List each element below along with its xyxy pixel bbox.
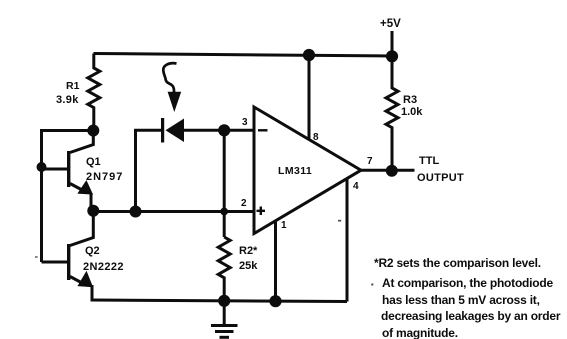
- wire Q2 base: [42, 261, 68, 264]
- svg-text:1: 1: [281, 220, 287, 231]
- wire top rail +5V: [94, 54, 393, 57]
- node D (photodiode anode branch): [130, 206, 142, 218]
- wire bottom rail: [92, 299, 347, 302]
- op-amp U1 LM311: [254, 107, 361, 234]
- resistor R2: [218, 237, 230, 301]
- wire noninverting input (pin 2): [93, 210, 253, 213]
- node J (output / R3 bottom): [386, 165, 398, 177]
- stray scan dot before note line 2: [371, 283, 373, 285]
- pin 8 label: [313, 132, 319, 143]
- R2 value label: [239, 245, 258, 272]
- stray scan mark near pin 4: [338, 220, 341, 222]
- wire photodiode left leg: [136, 130, 162, 211]
- note text: [374, 256, 561, 339]
- node E (pin3 / R2 junction): [218, 124, 230, 136]
- svg-text:TTL: TTL: [419, 155, 439, 167]
- svg-text:*R2 sets the comparison level.: *R2 sets the comparison level.: [374, 256, 541, 270]
- node K (+5V / R3 top): [386, 50, 398, 62]
- svg-text:3: 3: [242, 117, 248, 128]
- wire photodiode to pin 3: [184, 129, 254, 132]
- R3 value label: [401, 94, 423, 118]
- pin 8 wire: [308, 55, 311, 140]
- pin 4 label: [353, 181, 359, 192]
- node F (small junction R2 / pin2 wire): [220, 208, 228, 216]
- pin 1 wire: [274, 221, 277, 301]
- pin 3 label: [242, 117, 248, 128]
- pin 7 output wire: [361, 169, 415, 172]
- svg-text:4: 4: [353, 181, 359, 192]
- svg-text:R1: R1: [66, 80, 80, 92]
- svg-text:R2*: R2*: [239, 245, 258, 257]
- transistor Q2: [67, 211, 93, 300]
- node G (R2 bottom / ground): [218, 295, 230, 307]
- svg-text:3.9k: 3.9k: [56, 94, 79, 106]
- svg-text:of magnitude.: of magnitude.: [382, 326, 458, 339]
- svg-text:7: 7: [367, 156, 373, 167]
- svg-text:Q1: Q1: [86, 156, 101, 168]
- photodiode D1: [161, 118, 184, 143]
- R1 value label: [56, 80, 80, 106]
- svg-text:Q2: Q2: [85, 245, 100, 257]
- +5V label: [380, 18, 401, 30]
- node A (R1 bottom junction): [87, 125, 99, 137]
- ground: [211, 300, 238, 337]
- svg-text:At comparison, the photodiode: At comparison, the photodiode: [382, 276, 553, 290]
- transistor Q1: [67, 131, 93, 209]
- svg-text:OUTPUT: OUTPUT: [417, 172, 464, 184]
- svg-text:R3: R3: [403, 94, 417, 106]
- svg-text:has less than 5 mV across it,: has less than 5 mV across it,: [382, 293, 540, 307]
- pin 7 label: [367, 156, 373, 167]
- svg-text:2: 2: [241, 198, 247, 209]
- TTL OUTPUT label: [417, 155, 464, 184]
- stray scan mark near Q2 base: [35, 256, 38, 258]
- node I (pin 1 / bottom rail): [269, 295, 281, 307]
- wire left branch from node A: [42, 131, 94, 263]
- pin 2 label: [241, 198, 247, 209]
- node B (Q1 base junction): [37, 162, 47, 172]
- node C (Q1 emitter / Q2 collector / pin2 wire): [87, 205, 99, 217]
- pin 4 wire: [346, 178, 349, 301]
- resistor R3: [386, 56, 398, 170]
- svg-text:2N2222: 2N2222: [83, 261, 124, 273]
- svg-text:25k: 25k: [239, 260, 258, 272]
- svg-text:+5V: +5V: [380, 18, 401, 30]
- wire Q1 base: [42, 168, 68, 171]
- Q1 label: [86, 156, 123, 183]
- wire R2 top leg: [223, 130, 226, 237]
- svg-text:decreasing leakages by an orde: decreasing leakages by an order: [381, 309, 561, 323]
- svg-text:LM311: LM311: [278, 165, 312, 177]
- resistor R1: [88, 54, 100, 131]
- node H (pin 8 / top rail): [303, 49, 315, 61]
- wire +5V stub: [391, 31, 394, 56]
- pin 1 label: [281, 220, 287, 231]
- Q2 label: [83, 245, 124, 273]
- light arrow: [163, 63, 181, 112]
- svg-text:1.0k: 1.0k: [401, 106, 423, 118]
- svg-text:8: 8: [313, 132, 319, 143]
- svg-text:2N797: 2N797: [86, 171, 123, 183]
